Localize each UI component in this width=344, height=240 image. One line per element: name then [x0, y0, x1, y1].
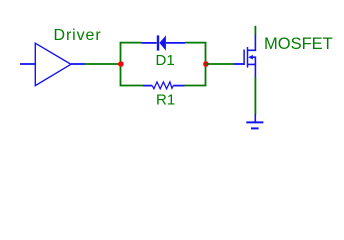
- node junction right: [203, 61, 209, 67]
- drain stub: [248, 35, 256, 51]
- wire top rail left segment: [120, 42, 142, 44]
- svg-text:MOSFET: MOSFET: [264, 35, 333, 53]
- wire right vertical rail: [205, 43, 207, 86]
- svg-text:R1: R1: [156, 92, 175, 109]
- wire bottom rail left segment: [120, 85, 143, 87]
- wire right junction to mosfet gate: [206, 63, 234, 65]
- transistor Q1 MOSFET: [234, 35, 256, 78]
- wire drain up stub: [254, 26, 256, 35]
- diode D1: [142, 35, 186, 50]
- wire driver output to left junction: [85, 63, 121, 65]
- body arrow: [248, 55, 253, 60]
- ground: [246, 114, 263, 128]
- svg-text:Driver: Driver: [54, 27, 102, 44]
- gate pin lead: [234, 63, 245, 65]
- wire bottom rail right segment: [185, 85, 207, 87]
- channel bar: [247, 47, 249, 68]
- node junction left: [118, 61, 124, 67]
- svg-text:D1: D1: [156, 52, 175, 69]
- source stub: [248, 64, 256, 77]
- body stub and source tie: [253, 57, 256, 64]
- op-amp U1 driver buffer triangle: [35, 43, 71, 85]
- wire source to ground: [254, 77, 256, 115]
- gate bar: [243, 50, 245, 66]
- resistor R1: [143, 82, 185, 89]
- wire driver output pin: [71, 63, 85, 65]
- wire input stub to driver: [20, 63, 35, 65]
- wire left vertical rail: [120, 43, 122, 86]
- wire top rail right segment: [185, 42, 206, 44]
